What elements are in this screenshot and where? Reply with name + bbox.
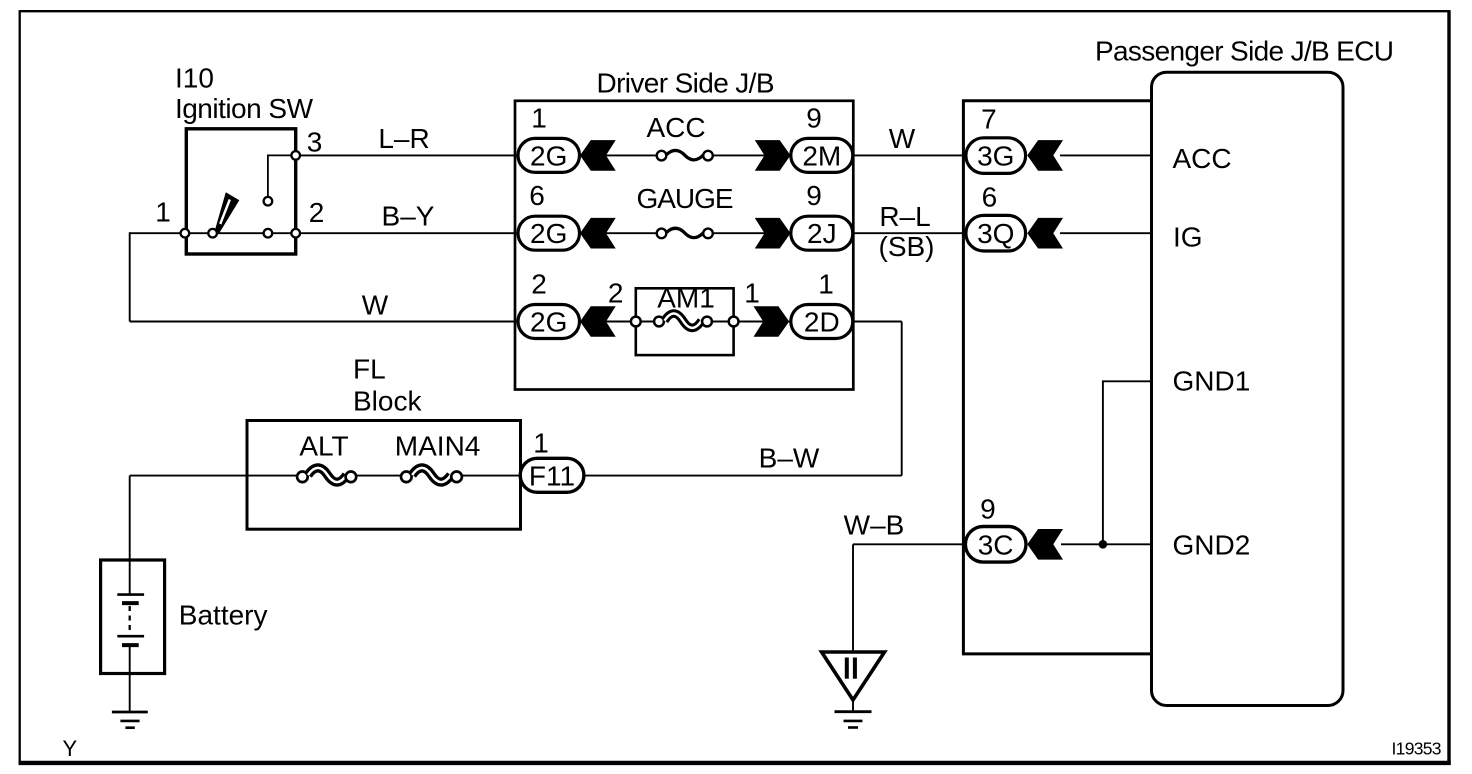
arrow right row2 [755, 218, 791, 249]
ground triangle II [822, 652, 885, 700]
junction dot GND [1099, 540, 1108, 549]
svg-text:Ignition SW: Ignition SW [175, 93, 314, 124]
svg-text:2: 2 [309, 197, 325, 228]
svg-text:I19353: I19353 [1392, 739, 1442, 759]
wire L-R from switch pin 3 to 2G [296, 154, 964, 156]
svg-text:F11: F11 [529, 460, 575, 491]
svg-text:Block: Block [353, 385, 422, 416]
arrow left row3 [580, 306, 616, 337]
svg-text:2: 2 [531, 269, 547, 300]
svg-text:I10: I10 [175, 62, 214, 93]
connector 2M pin 9 [791, 138, 853, 172]
wire W from switch pin 1 down and to 2G row3 [129, 232, 131, 321]
wire GND2 3C to ECU [1061, 543, 1152, 545]
svg-text:B–Y: B–Y [382, 200, 435, 231]
svg-text:Battery: Battery [179, 600, 268, 631]
wire ACC 3G to ECU [1060, 154, 1152, 156]
svg-text:9: 9 [806, 103, 822, 134]
row 2: connector 2G pin 6 [518, 216, 580, 250]
svg-text:2J: 2J [807, 218, 837, 249]
svg-text:3G: 3G [977, 140, 1014, 171]
svg-text:3C: 3C [978, 529, 1014, 560]
wire battery to FL block to B-W [130, 475, 902, 477]
connector 3Q pin 6 [966, 215, 1026, 251]
svg-text:1: 1 [155, 197, 171, 228]
switch terminal pin 3 [291, 151, 300, 160]
battery cell plates [117, 593, 144, 596]
svg-text:2G: 2G [530, 140, 567, 171]
svg-text:7: 7 [981, 104, 997, 135]
svg-text:ACC: ACC [646, 112, 705, 143]
arrow right row1 [755, 140, 791, 171]
svg-text:2M: 2M [802, 140, 841, 171]
svg-text:1: 1 [818, 269, 834, 300]
ground symbol battery [112, 711, 148, 714]
arrow left row2 [580, 218, 616, 249]
switch middle contact upper [264, 197, 273, 206]
switch lever [215, 192, 240, 233]
svg-text:MAIN4: MAIN4 [395, 430, 481, 461]
ground symbol triangle [835, 710, 872, 713]
switch pole contact [208, 229, 217, 238]
svg-text:Driver Side J/B: Driver Side J/B [597, 68, 775, 99]
connector 3G pin 7 [966, 138, 1026, 174]
wire W-B [853, 543, 965, 545]
switch I10 box [186, 129, 295, 254]
wire B-W vertical from 2D down to F11 line [901, 322, 903, 476]
svg-text:3Q: 3Q [977, 218, 1014, 249]
svg-text:(SB): (SB) [879, 231, 935, 262]
battery box [101, 560, 165, 674]
svg-text:GND2: GND2 [1173, 530, 1251, 561]
svg-text:1: 1 [533, 428, 549, 459]
row 1: connector 2G pin 1 [518, 138, 580, 172]
svg-text:6: 6 [529, 180, 545, 211]
svg-text:W: W [889, 123, 916, 154]
connector F11 pin 1 [520, 458, 584, 492]
wire GND1 [1103, 381, 1152, 544]
svg-text:W–B: W–B [844, 510, 905, 541]
svg-text:1: 1 [744, 278, 760, 309]
switch middle contact lower [264, 229, 273, 238]
svg-text:IG: IG [1173, 222, 1203, 253]
svg-text:ACC: ACC [1173, 143, 1232, 174]
svg-text:9: 9 [980, 493, 996, 524]
wire IG 3Q to ECU [1060, 232, 1152, 234]
arrow left row1 [580, 140, 616, 171]
svg-text:B–W: B–W [759, 442, 820, 473]
svg-text:FL: FL [353, 354, 386, 385]
svg-text:AM1: AM1 [657, 283, 715, 314]
svg-text:L–R: L–R [378, 123, 429, 154]
svg-text:W: W [362, 290, 389, 321]
svg-text:ALT: ALT [299, 430, 348, 461]
svg-text:2: 2 [608, 278, 624, 309]
row 3: connector 2G pin 2 [518, 305, 580, 339]
passenger J/B connector block [963, 101, 1151, 654]
arrow right row3 [754, 306, 790, 337]
ECU box [1152, 72, 1344, 705]
svg-text:9: 9 [806, 180, 822, 211]
svg-text:GAUGE: GAUGE [637, 183, 734, 214]
switch internal wire to pin 3 [268, 155, 292, 198]
arrow left 3Q [1027, 218, 1063, 249]
connector 2J pin 9 [791, 216, 853, 250]
wire B-Y from switch pin 2 to 2G row2 [130, 232, 964, 234]
switch terminal pin 2 [291, 229, 300, 238]
svg-text:Y: Y [63, 736, 78, 761]
switch terminal pin 1 [181, 229, 190, 238]
svg-text:6: 6 [982, 182, 998, 213]
svg-text:R–L: R–L [879, 201, 930, 232]
svg-text:2G: 2G [530, 307, 567, 338]
connector 3C pin 9 [965, 527, 1026, 563]
svg-text:GND1: GND1 [1173, 366, 1251, 397]
svg-text:2D: 2D [804, 307, 840, 338]
battery ground wire [129, 645, 131, 712]
FL Block box [247, 421, 521, 530]
connector 2D pin 1 [791, 305, 853, 339]
arrow left 3G [1027, 140, 1063, 171]
svg-text:2G: 2G [530, 218, 567, 249]
arrow left 3C [1027, 529, 1063, 560]
svg-text:Passenger Side J/B ECU: Passenger Side J/B ECU [1095, 35, 1394, 66]
fusible link AM1 box [636, 288, 734, 355]
Driver Side J/B box [515, 101, 853, 390]
svg-text:1: 1 [531, 103, 547, 134]
svg-text:3: 3 [307, 127, 323, 158]
